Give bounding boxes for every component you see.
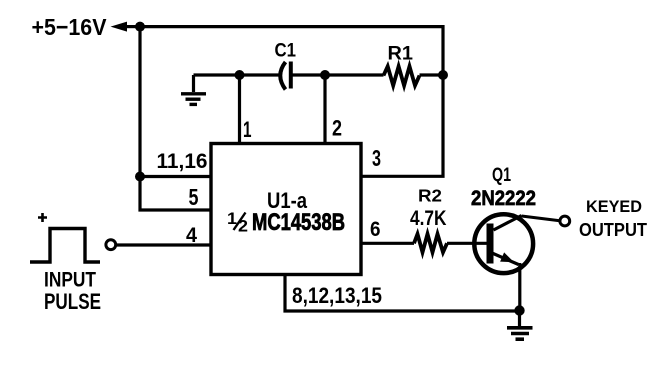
wire emitter vertical <box>518 263 521 311</box>
node B junction dot <box>438 70 448 80</box>
output terminal circle <box>560 216 570 226</box>
wire pins 8,12,13,15 to ground node <box>285 275 520 312</box>
svg-text:+5−16V: +5−16V <box>32 14 107 40</box>
svg-text:R2: R2 <box>418 185 442 205</box>
svg-text:2N2222: 2N2222 <box>471 187 536 210</box>
junction dot pin2/C1 <box>320 70 330 80</box>
plus sign above pulse <box>38 213 47 222</box>
wire R1 to node B <box>420 73 444 76</box>
svg-text:6: 6 <box>370 218 381 241</box>
wire pin 2 vertical <box>323 75 326 144</box>
svg-text:1: 1 <box>243 117 252 142</box>
wire R2 to base <box>447 242 487 245</box>
ground (bottom-right) <box>507 328 533 339</box>
svg-text:KEYED: KEYED <box>586 197 642 216</box>
input pulse waveform <box>30 229 100 263</box>
wire C1 to R1 <box>293 73 384 76</box>
wire pin 1 vertical <box>238 75 241 144</box>
svg-text:2: 2 <box>332 116 342 141</box>
wire pin 4 input <box>116 243 212 246</box>
svg-text:Q1: Q1 <box>492 165 511 186</box>
ground (top-left) <box>181 94 206 105</box>
wire pin 6 to R2 <box>361 242 414 245</box>
svg-text:11,16: 11,16 <box>157 150 208 173</box>
junction dot at 11,16 branch <box>135 172 145 182</box>
wire pin 11,16 feed <box>140 175 211 178</box>
svg-text:INPUT: INPUT <box>44 268 96 291</box>
resistor R1 <box>384 44 420 86</box>
wire ground stub top-left <box>192 75 195 92</box>
svg-text:3: 3 <box>372 145 381 171</box>
svg-text:4.7K: 4.7K <box>410 207 447 230</box>
svg-text:PULSE: PULSE <box>44 289 101 314</box>
svg-text:2: 2 <box>238 218 248 236</box>
input terminal circle <box>106 240 116 250</box>
svg-text:5: 5 <box>189 184 199 210</box>
supply arrowhead <box>111 22 128 32</box>
wire C1 left segment <box>194 73 282 76</box>
ground node junction dot <box>514 305 524 315</box>
node A junction dot <box>135 22 145 32</box>
svg-text:C1: C1 <box>275 41 297 62</box>
svg-text:OUTPUT: OUTPUT <box>579 219 648 240</box>
junction dot pin1/C1 <box>235 70 245 80</box>
svg-text:8,12,13,15: 8,12,13,15 <box>292 283 382 308</box>
transistor Q1 <box>471 165 536 273</box>
op-amp U1-a IC box <box>211 144 361 275</box>
capacitor C1 <box>275 41 297 90</box>
wire collector to output <box>522 216 560 221</box>
resistor R2 <box>410 185 447 252</box>
wire power vertical and pin 5 feed <box>140 27 211 210</box>
wire top rail and right vertical to pin 3 <box>140 27 443 177</box>
svg-text:MC14538B: MC14538B <box>252 209 345 236</box>
wire ground stub bottom <box>518 311 521 328</box>
wire arrow to node A <box>125 25 140 28</box>
